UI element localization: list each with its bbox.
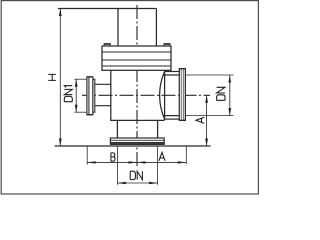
bolt left on top flange: [104, 44, 111, 46]
label A right: [196, 117, 204, 123]
right port hub top line: [165, 71, 180, 73]
extension line DN bottom right: [157, 147, 159, 185]
body outline: [111, 70, 165, 120]
top pipe left wall: [117, 9, 119, 47]
dimension DN right extension top: [186, 74, 234, 76]
label A bottom: [159, 152, 165, 160]
bolt right on top flange: [164, 44, 171, 46]
top flange line 1: [102, 51, 171, 53]
top flange line 2: [102, 59, 171, 61]
label B: [111, 153, 115, 161]
bottom flange: [110, 138, 164, 145]
left pipe bottom wall: [95, 105, 111, 107]
dimension DN1 line: [75, 79, 78, 112]
right pipe top wall: [163, 74, 179, 76]
neck left wall: [116, 120, 118, 138]
horizontal centerline: [82, 94, 210, 96]
left flange: [87, 77, 95, 115]
extension line A right bottom: [185, 146, 187, 164]
extension line DN bottom left: [116, 147, 118, 185]
left pipe top wall: [95, 83, 111, 85]
dimension DN right extension bottom: [186, 115, 234, 117]
right flange: [179, 69, 185, 121]
label DN bottom: [130, 171, 142, 179]
dimension H line: [59, 9, 62, 147]
border frame: [1, 1, 258, 194]
right pipe bottom wall: [163, 115, 179, 117]
label DN1: [64, 86, 72, 102]
body right arc: [160, 72, 165, 120]
neck right wall: [157, 120, 159, 138]
extension line B left: [86, 146, 88, 165]
label H: [48, 74, 56, 80]
base ground line: [55, 145, 211, 147]
dimension DN bottom line: [117, 182, 157, 184]
top pipe right wall: [155, 9, 157, 47]
dimension DN1 extension bottom: [74, 111, 87, 113]
right port hub bottom line: [165, 118, 180, 120]
dimension DN1 extension top: [74, 78, 87, 80]
dimension A right line: [205, 95, 208, 146]
dimension DN right line: [228, 75, 231, 116]
vertical centerline: [136, 5, 138, 167]
top flange (bonnet) outer rect: [102, 46, 171, 70]
top flange line 3: [102, 65, 171, 67]
dimension B A bottom line: [87, 161, 186, 163]
wire top horizontal line: [58, 8, 156, 10]
label DN right: [217, 87, 225, 100]
